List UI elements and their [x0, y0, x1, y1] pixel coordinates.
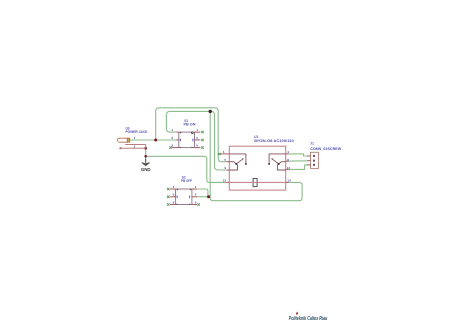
svg-text:J1: J1 — [310, 142, 314, 146]
svg-text:CONN_03SCREW: CONN_03SCREW — [310, 147, 341, 151]
svg-text:6: 6 — [196, 144, 198, 148]
svg-text:5: 5 — [173, 193, 175, 197]
svg-text:PB ON: PB ON — [184, 123, 197, 127]
svg-text:4: 4 — [173, 185, 175, 189]
svg-text:Politeknik Caltex Riau: Politeknik Caltex Riau — [289, 316, 328, 322]
svg-text:2: 2 — [171, 136, 173, 140]
svg-text:5: 5 — [196, 136, 198, 140]
svg-text:MY2N-G8 AC100/110: MY2N-G8 AC100/110 — [254, 139, 294, 143]
svg-text:14: 14 — [287, 179, 291, 183]
svg-text:12: 12 — [287, 166, 291, 170]
svg-text:PB OFF: PB OFF — [181, 179, 192, 183]
svg-text:13: 13 — [223, 179, 227, 183]
svg-text:3: 3 — [195, 200, 197, 204]
svg-text:1: 1 — [195, 185, 197, 189]
svg-text:1: 1 — [171, 128, 173, 132]
svg-text:GND: GND — [141, 167, 151, 172]
svg-text:POWER JACK: POWER JACK — [126, 130, 149, 134]
svg-text:4: 4 — [196, 128, 198, 132]
svg-text:2: 2 — [195, 193, 197, 197]
svg-text:6: 6 — [173, 200, 175, 204]
